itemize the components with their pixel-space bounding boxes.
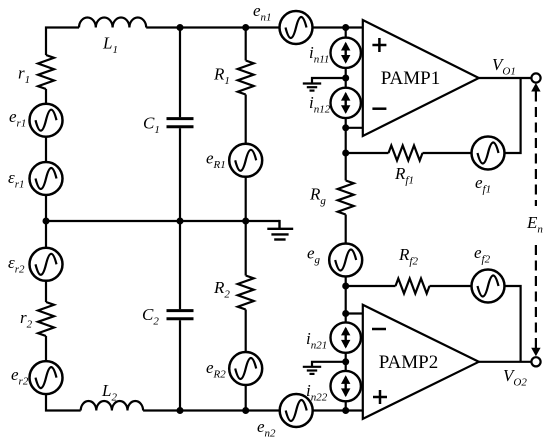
node in22 bottom junction xyxy=(342,407,349,414)
wire feedback2 right down to output xyxy=(504,286,521,362)
wire C1 branch lower xyxy=(179,128,181,221)
wire e_g down to PAMP2 minus xyxy=(345,276,347,314)
wire e_n1 to PAMP1 + input xyxy=(312,26,363,28)
svg-text:Rf2: Rf2 xyxy=(398,245,418,268)
svg-text:ef2: ef2 xyxy=(474,243,491,266)
svg-text:Rf1: Rf1 xyxy=(394,164,414,187)
resistor r2 xyxy=(38,302,54,336)
resistor R1 xyxy=(238,61,254,95)
svg-text:R1: R1 xyxy=(213,65,230,88)
svg-text:er1: er1 xyxy=(9,107,26,130)
terminal V_O2 xyxy=(531,357,540,366)
svg-text:r1: r1 xyxy=(18,64,30,87)
svg-text:L1: L1 xyxy=(102,34,118,57)
node PAMP2 mid junction xyxy=(342,358,349,365)
wire middle node down to eps_r2 xyxy=(45,221,47,248)
node bottom-C2 junction xyxy=(177,407,184,414)
node middle-left junction xyxy=(43,218,50,225)
svg-text:in11: in11 xyxy=(309,43,329,66)
current source i_n21 xyxy=(331,322,361,352)
ground main xyxy=(267,220,293,240)
svg-text:C2: C2 xyxy=(142,305,159,328)
wire bottom horizontal L2 to e_n2 xyxy=(143,409,280,411)
wire PAMP1 minus input xyxy=(346,127,363,129)
svg-text:r2: r2 xyxy=(20,308,33,331)
svg-text:eR1: eR1 xyxy=(206,149,226,172)
node feedback1 junction xyxy=(342,150,349,157)
E_n dashed line lower xyxy=(535,245,537,349)
svg-text:in21: in21 xyxy=(306,329,327,352)
wire PAMP2 minus input xyxy=(346,312,363,314)
voltage source e_f1 xyxy=(472,137,505,170)
voltage source e_R1 xyxy=(229,144,262,177)
svg-text:eg: eg xyxy=(307,244,321,267)
node middle-R junction xyxy=(242,218,249,225)
svg-text:R2: R2 xyxy=(213,278,230,301)
wire Rf2 to e_f2 xyxy=(430,285,473,287)
op-amp PAMP2 xyxy=(363,305,479,419)
svg-text:en1: en1 xyxy=(253,1,272,24)
svg-text:VO1: VO1 xyxy=(492,55,516,78)
voltage source e_n1 xyxy=(280,11,313,44)
wire e_R1 to middle xyxy=(245,176,247,221)
resistor r1 xyxy=(38,55,54,89)
node top-R1 junction xyxy=(242,24,249,31)
current source i_n12 xyxy=(331,88,361,118)
terminal V_O1 xyxy=(531,73,540,82)
node bottom-R2 junction xyxy=(242,407,249,414)
voltage source e_r2 xyxy=(30,361,63,394)
svg-text:εr1: εr1 xyxy=(8,168,24,191)
resistor Rf2 xyxy=(396,279,430,294)
voltage source e_f2 xyxy=(472,270,505,303)
node feedback2 junction xyxy=(342,283,349,290)
wire R1 branch upper xyxy=(245,28,247,61)
wire eps_r1 to middle node xyxy=(45,195,47,222)
wire i_n22 to bottom node xyxy=(345,401,347,411)
wire C2 branch lower xyxy=(179,320,181,410)
wire e_R2 to bottom xyxy=(245,385,247,411)
wire i_n11 to i_n12 xyxy=(345,68,347,89)
voltage source e_n2 xyxy=(280,394,313,427)
E_n dashed line upper xyxy=(535,92,537,207)
node middle-C junction xyxy=(177,218,184,225)
wire minus junction to i_n21 xyxy=(345,314,347,323)
svg-text:PAMP2: PAMP2 xyxy=(379,352,439,373)
svg-text:er2: er2 xyxy=(11,365,29,388)
op-amp PAMP1 xyxy=(363,20,479,136)
current source i_n22 xyxy=(331,371,361,401)
wire i_n21 to i_n22 xyxy=(345,353,347,372)
svg-text:Rg: Rg xyxy=(309,185,326,208)
svg-text:C1: C1 xyxy=(143,114,160,137)
capacitor C1 xyxy=(167,119,194,127)
voltage source e_r1 xyxy=(30,104,63,137)
svg-text:en2: en2 xyxy=(257,417,276,440)
svg-text:eR2: eR2 xyxy=(206,358,226,381)
E_n arrow bottom xyxy=(531,348,540,357)
wire R2 branch upper xyxy=(245,221,247,276)
node PAMP1 mid junction xyxy=(342,75,349,82)
node in11 top junction xyxy=(342,24,349,31)
ground PAMP2 input xyxy=(303,362,346,374)
wire Rg to e_g xyxy=(345,215,347,245)
wire eps_r2 to r2 xyxy=(45,280,47,302)
svg-text:VO2: VO2 xyxy=(503,366,527,389)
wire C1 branch upper xyxy=(179,28,181,118)
node top-C1 junction xyxy=(177,24,184,31)
wire middle horizontal xyxy=(46,220,280,222)
ground PAMP1 input xyxy=(303,78,346,91)
wire top horizontal L1 to e_n1 xyxy=(146,26,280,28)
wire feedback junction down to Rg xyxy=(345,153,347,181)
current source i_n11 xyxy=(331,38,361,68)
voltage source eps_r2 xyxy=(30,248,63,281)
svg-text:PAMP1: PAMP1 xyxy=(381,68,441,89)
wire e_n2 to PAMP2 + input xyxy=(312,409,363,411)
wire top node to i_n11 xyxy=(345,28,347,39)
voltage source e_g xyxy=(329,244,362,277)
wire Rf1 to e_f1 xyxy=(423,152,473,154)
inductor L1 xyxy=(79,17,146,27)
voltage source eps_r1 xyxy=(30,162,63,195)
svg-text:in12: in12 xyxy=(309,93,331,116)
resistor Rf1 xyxy=(389,146,423,161)
svg-text:En: En xyxy=(526,213,543,236)
wire top-left corner to L1 xyxy=(46,28,79,56)
wire feedback1 right up to output xyxy=(504,78,521,153)
wire PAMP2 output xyxy=(479,361,532,363)
resistor R2 xyxy=(238,276,254,310)
capacitor C2 xyxy=(167,311,194,319)
wire e_r1 to eps_r1 xyxy=(45,136,47,162)
inductor L2 xyxy=(81,401,143,411)
voltage source e_R2 xyxy=(229,352,262,385)
resistor Rg xyxy=(338,181,354,215)
node PAMP2 minus junction xyxy=(342,310,349,317)
svg-text:ef1: ef1 xyxy=(475,173,491,196)
wire i_n12 to feedback junction xyxy=(345,118,347,153)
svg-text:εr2: εr2 xyxy=(8,253,25,276)
wire C2 branch upper xyxy=(179,221,181,309)
node PAMP1 minus junction xyxy=(342,124,349,131)
wire PAMP1 output xyxy=(479,77,532,79)
wire bottom-left corner to L2 xyxy=(46,394,81,411)
E_n arrow top xyxy=(531,83,540,92)
wire feedback2 left xyxy=(346,285,396,287)
wire r2 to e_r2 xyxy=(45,336,47,362)
wire feedback1 left xyxy=(346,152,389,154)
wire r1 to e_r1 xyxy=(45,89,47,104)
wire R2 to e_R2 xyxy=(245,310,247,353)
wire R1 to e_R1 xyxy=(245,95,247,145)
